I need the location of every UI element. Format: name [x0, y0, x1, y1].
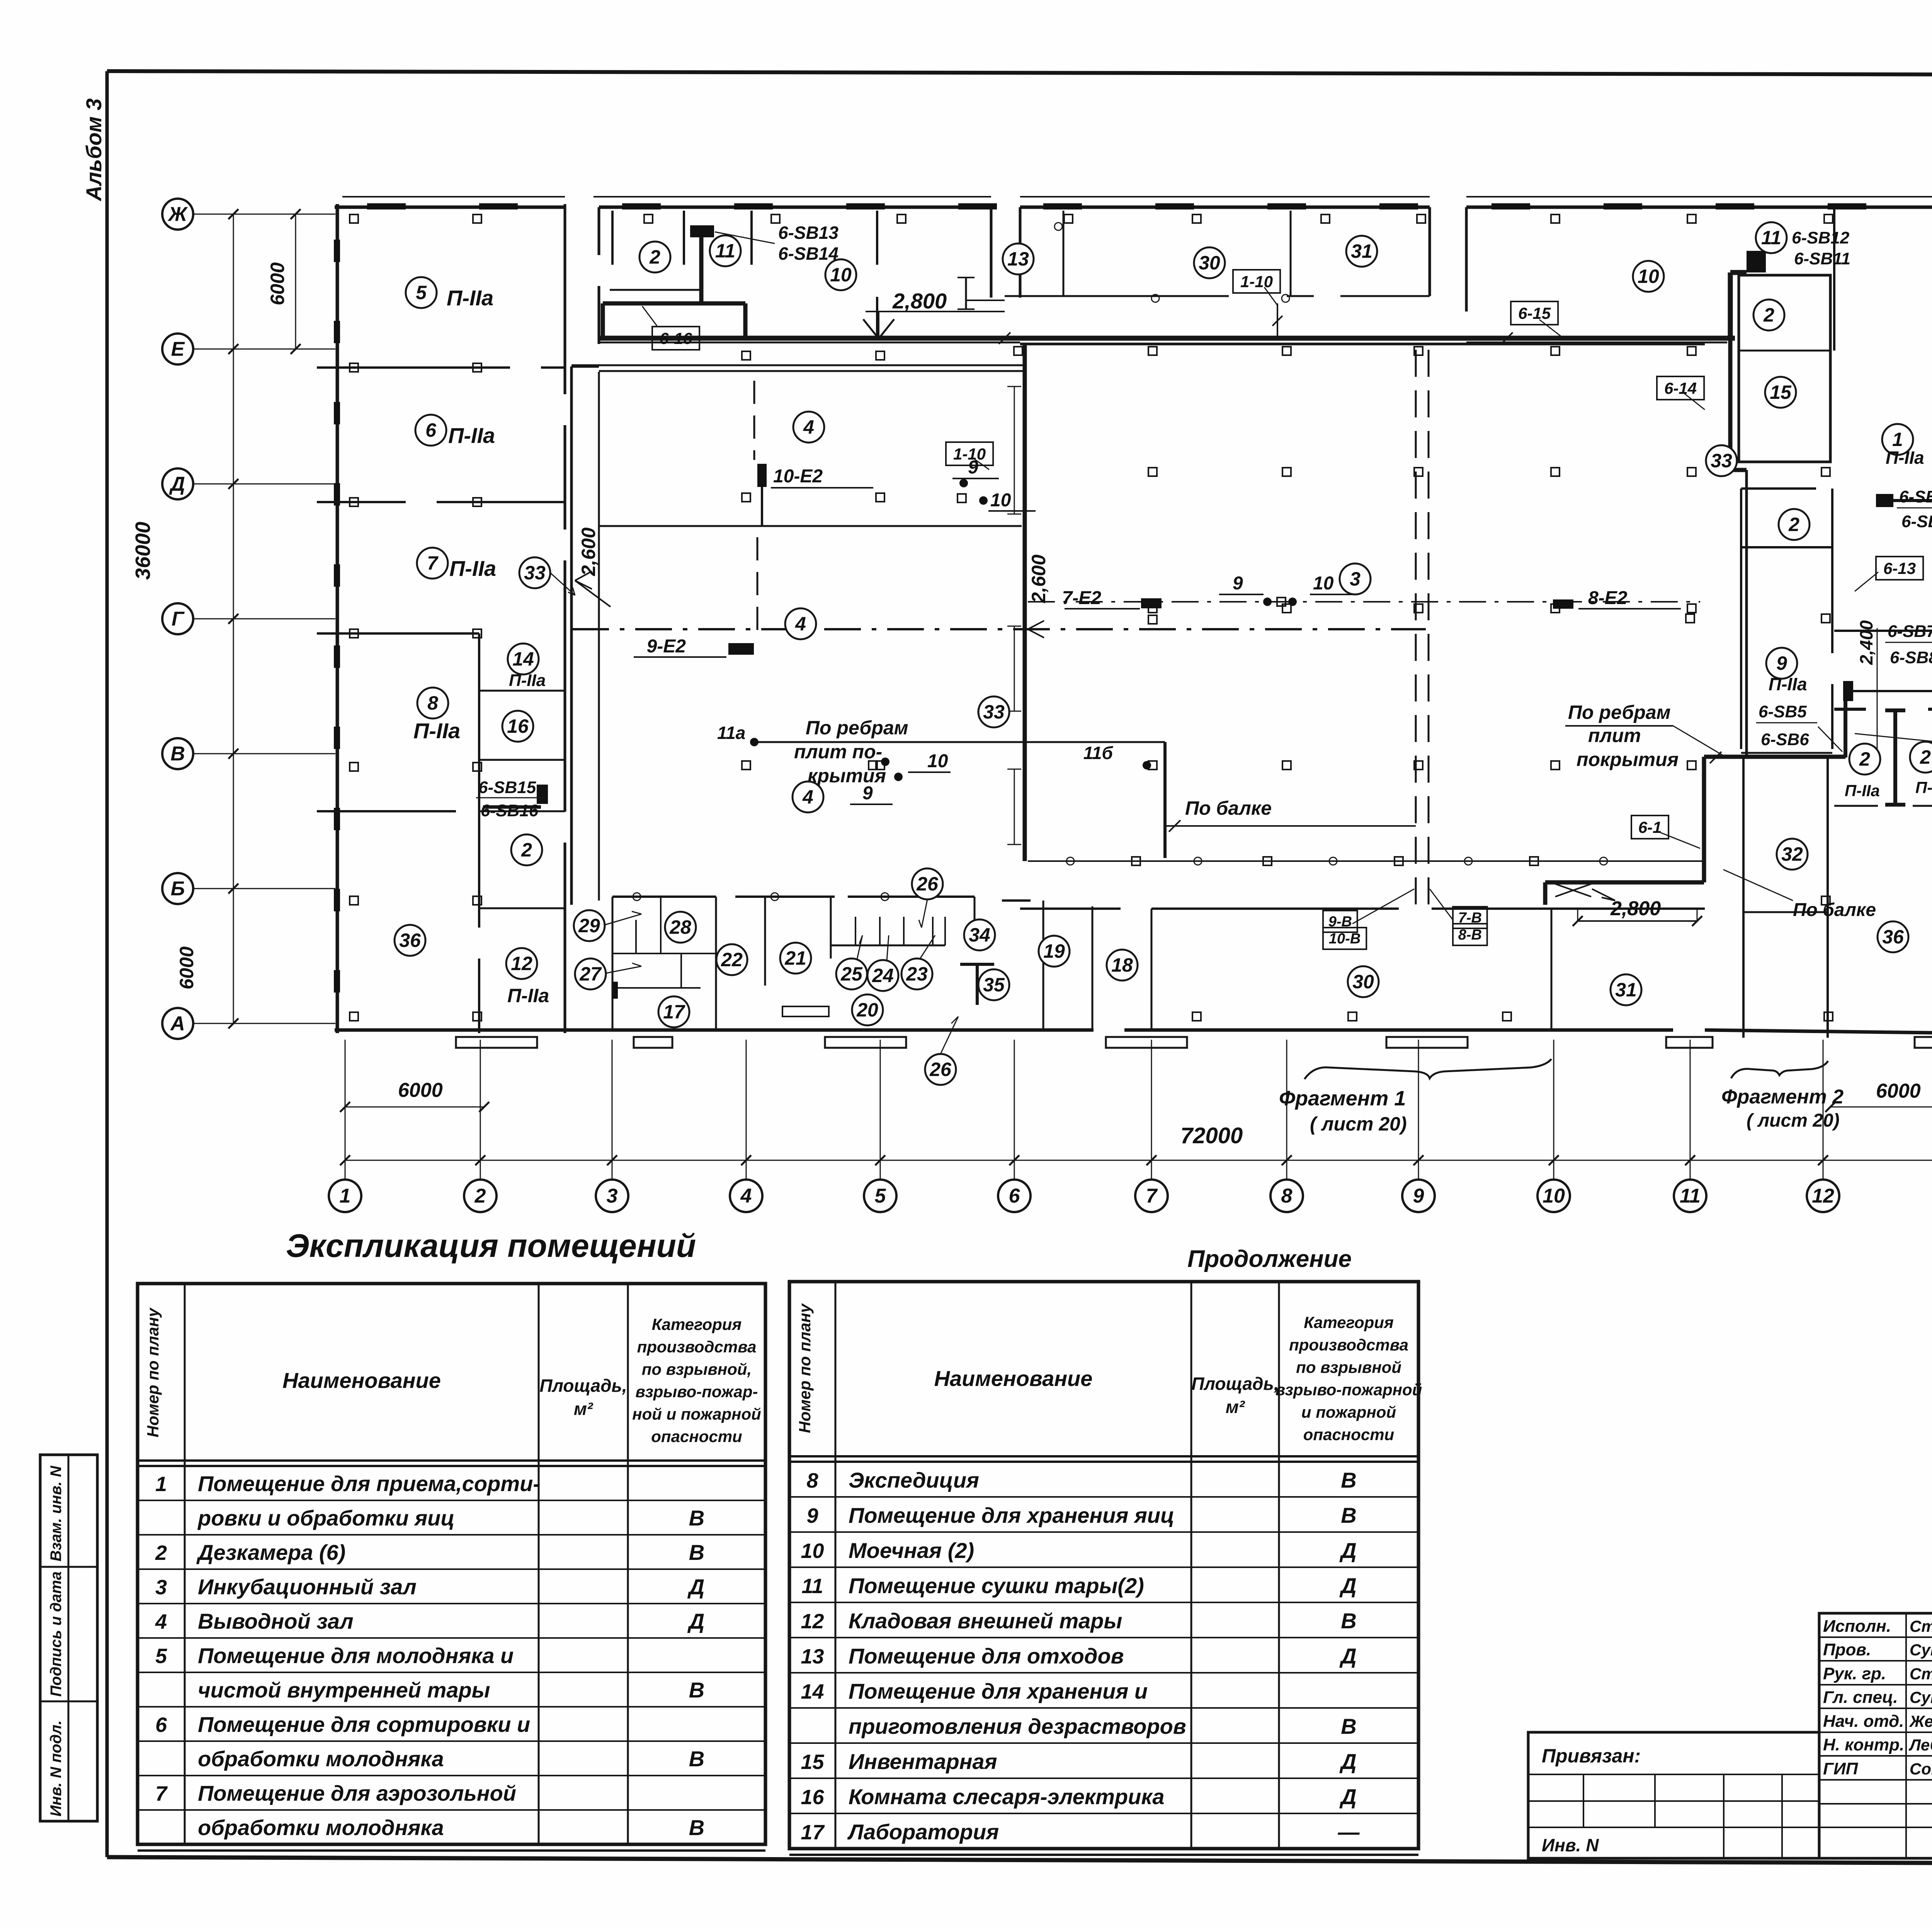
svg-text:26: 26	[916, 873, 939, 895]
svg-text:Фрагмент 2: Фрагмент 2	[1721, 1086, 1844, 1108]
svg-text:Инвентарная: Инвентарная	[849, 1749, 997, 1774]
svg-text:4: 4	[155, 1610, 167, 1633]
central hall bottom line	[1028, 826, 1705, 861]
tambour H-columns	[1885, 710, 1905, 805]
svg-text:Супрунова: Супрунова	[1910, 1641, 1932, 1659]
svg-text:6-SB12: 6-SB12	[1792, 228, 1850, 247]
svg-text:опасности: опасности	[1303, 1425, 1394, 1444]
svg-text:Старицына: Старицына	[1910, 1617, 1932, 1635]
svg-text:Наименование: Наименование	[934, 1366, 1093, 1391]
top strip block rooms 13-30-31 walls	[1005, 207, 1430, 337]
svg-text:7: 7	[155, 1782, 168, 1805]
svg-text:м²: м²	[1226, 1397, 1245, 1417]
svg-text:23: 23	[906, 963, 928, 985]
svg-text:8: 8	[427, 692, 438, 714]
cable down right wing	[1545, 757, 1704, 905]
svg-text:6-SB14: 6-SB14	[778, 243, 838, 264]
svg-text:33: 33	[524, 562, 546, 584]
svg-text:Соколовский: Соколовский	[1910, 1760, 1932, 1778]
svg-text:Д: Д	[687, 1609, 704, 1633]
label po balke right	[1723, 870, 1876, 920]
cable trunk corridor	[600, 332, 1735, 832]
svg-text:Е: Е	[171, 338, 185, 361]
bottom strip partitions	[612, 897, 1551, 1032]
svg-text:6000: 6000	[267, 262, 288, 305]
labels 7-B 8-B	[1430, 889, 1487, 945]
svg-text:взрыво-пожарной: взрыво-пожарной	[1276, 1381, 1422, 1399]
svg-text:Экспедиция: Экспедиция	[849, 1468, 979, 1492]
svg-text:Помещение для хранения и: Помещение для хранения и	[849, 1679, 1148, 1703]
right wing walls	[1741, 489, 1932, 1038]
svg-text:7: 7	[427, 552, 439, 574]
svg-text:В: В	[689, 1815, 704, 1840]
svg-text:П-IIа: П-IIа	[413, 718, 460, 743]
label 6-SB5/6	[1756, 702, 1842, 752]
label 6-SB13/14	[715, 223, 838, 264]
svg-text:26: 26	[929, 1059, 952, 1080]
label 6-SB12/11	[1792, 228, 1850, 268]
cable riser room 11 right	[1730, 251, 1766, 756]
svg-text:Пров.: Пров.	[1823, 1640, 1871, 1659]
label 2,800 top with arrow	[863, 278, 1005, 339]
label 6-15	[1511, 301, 1565, 339]
svg-text:6-13: 6-13	[1883, 559, 1916, 577]
continuation label mid	[1187, 1246, 1352, 1272]
hall 4 top wall	[571, 365, 1023, 371]
svg-text:9: 9	[1776, 652, 1787, 674]
svg-text:Помещение для приема,сорти-: Помещение для приема,сорти-	[198, 1471, 540, 1496]
svg-text:Моечная (2): Моечная (2)	[849, 1538, 974, 1563]
svg-text:Жевнеров: Жевнеров	[1909, 1712, 1932, 1730]
svg-text:6: 6	[425, 419, 437, 441]
svg-text:10: 10	[830, 264, 852, 286]
svg-text:Помещение для молодняка и: Помещение для молодняка и	[198, 1643, 514, 1668]
svg-text:Инкубационный зал: Инкубационный зал	[198, 1575, 417, 1599]
left margin attribute boxes	[40, 1455, 97, 1821]
svg-text:В: В	[170, 743, 185, 765]
svg-text:6000: 6000	[398, 1079, 443, 1102]
bottom dimension lines	[340, 1079, 1932, 1165]
svg-text:19: 19	[1043, 940, 1065, 962]
svg-text:6000: 6000	[1876, 1080, 1921, 1102]
svg-text:Подпись и дата: Подпись и дата	[48, 1571, 65, 1697]
svg-text:Инв. N: Инв. N	[1542, 1835, 1599, 1855]
svg-text:В: В	[689, 1747, 704, 1771]
label 6-1	[1631, 816, 1700, 848]
album label (rotated)	[82, 98, 106, 202]
svg-text:П-IIа: П-IIа	[449, 556, 496, 581]
svg-text:крытия: крытия	[808, 765, 886, 787]
svg-text:6-SB13: 6-SB13	[778, 223, 838, 243]
svg-text:4: 4	[802, 786, 813, 808]
svg-text:Выводной зал: Выводной зал	[198, 1609, 354, 1633]
svg-text:21: 21	[784, 947, 806, 969]
svg-text:6-SB8: 6-SB8	[1890, 648, 1932, 667]
left block partitions	[317, 368, 565, 1033]
left block window ticks	[334, 240, 340, 993]
svg-text:33: 33	[1711, 450, 1732, 472]
svg-text:Взам. инв. N: Взам. инв. N	[48, 1466, 65, 1561]
svg-text:А: А	[170, 1013, 185, 1035]
dash-dot centerline 7E2-8E2	[1028, 601, 1700, 603]
hall 4 right wall	[1023, 344, 1027, 861]
svg-text:Б: Б	[171, 878, 185, 900]
label 7-E2	[1062, 588, 1162, 624]
left block outer walls	[335, 197, 1932, 1033]
svg-text:11: 11	[801, 1575, 823, 1598]
svg-text:31: 31	[1351, 240, 1372, 262]
svg-text:Номер по плану: Номер по плану	[144, 1307, 162, 1437]
point labels 9/10 room4 lower	[850, 751, 951, 804]
svg-text:33: 33	[983, 701, 1005, 723]
svg-text:Экспликация помещений: Экспликация помещений	[286, 1228, 696, 1264]
explication title	[286, 1228, 696, 1264]
svg-text:Старицына: Старицына	[1910, 1665, 1932, 1683]
svg-text:плит по-: плит по-	[794, 741, 882, 763]
rotated dim 2,400	[1856, 620, 1876, 665]
grid axis number circles	[329, 1040, 1932, 1212]
svg-text:Супрунова: Супрунова	[1910, 1688, 1932, 1706]
svg-text:2: 2	[1859, 748, 1870, 770]
label 6-12	[1855, 734, 1932, 760]
svg-text:Кладовая внешней тары: Кладовая внешней тары	[849, 1609, 1122, 1633]
svg-text:4: 4	[795, 613, 806, 635]
svg-text:72000: 72000	[1180, 1123, 1243, 1148]
svg-text:9-E2: 9-E2	[647, 636, 686, 657]
svg-text:Д: Д	[687, 1575, 704, 1599]
svg-text:ной и пожарной: ной и пожарной	[632, 1405, 761, 1423]
svg-text:6: 6	[1009, 1185, 1020, 1207]
svg-text:чистой внутренней тары: чистой внутренней тары	[198, 1678, 490, 1702]
rotated dim 2,600 left	[575, 528, 611, 607]
svg-text:Альбом 3: Альбом 3	[82, 98, 106, 202]
svg-text:30: 30	[1199, 252, 1220, 274]
column squares	[350, 215, 1932, 1021]
label 9-E2	[634, 636, 754, 657]
svg-text:По ребрам: По ребрам	[1568, 701, 1671, 723]
svg-text:2: 2	[474, 1185, 486, 1207]
svg-text:9: 9	[1233, 573, 1243, 594]
svg-text:Д: Д	[1339, 1573, 1356, 1598]
svg-text:14: 14	[801, 1680, 824, 1703]
svg-text:2: 2	[155, 1541, 167, 1565]
svg-text:Помещение для хранения яиц: Помещение для хранения яиц	[849, 1503, 1174, 1527]
label po balke left	[1185, 797, 1272, 819]
svg-text:12: 12	[511, 953, 532, 974]
svg-text:31: 31	[1615, 979, 1637, 1001]
svg-text:Помещение для сортировки и: Помещение для сортировки и	[198, 1712, 530, 1737]
dashed vertical 9E2	[754, 381, 762, 638]
bottom outer wall	[567, 1030, 1932, 1033]
svg-text:П-IIа: П-IIа	[1845, 781, 1880, 800]
grid axis letter circles	[162, 199, 335, 1039]
svg-text:12: 12	[1812, 1185, 1834, 1207]
svg-text:36: 36	[399, 930, 421, 951]
fragment 2 brace and label	[1721, 1061, 1844, 1131]
svg-text:7: 7	[1146, 1185, 1158, 1207]
svg-text:Комната слесаря-электрика: Комната слесаря-электрика	[849, 1784, 1165, 1809]
entrance canopy with brace	[1546, 883, 1696, 901]
svg-text:1-10: 1-10	[1240, 272, 1273, 291]
small circle markers on hall lines	[633, 857, 1607, 901]
svg-text:Помещение для отходов: Помещение для отходов	[849, 1644, 1124, 1668]
label 6-13	[1855, 557, 1923, 591]
svg-text:11б: 11б	[1083, 743, 1114, 763]
svg-text:4: 4	[740, 1185, 752, 1207]
bottom table 2	[789, 1282, 1422, 1855]
svg-text:28: 28	[669, 916, 691, 938]
svg-text:Г: Г	[172, 608, 185, 630]
svg-text:покрытия: покрытия	[1577, 749, 1679, 770]
svg-text:( лист 20): ( лист 20)	[1747, 1110, 1840, 1131]
line 11a po rebram	[750, 738, 1165, 858]
top strip block rooms 10-2-15 walls	[1466, 207, 1932, 631]
svg-text:7-E2: 7-E2	[1062, 588, 1102, 608]
svg-text:6-SB6: 6-SB6	[1761, 730, 1809, 749]
svg-text:35: 35	[983, 974, 1005, 996]
svg-text:32: 32	[1781, 843, 1803, 865]
svg-text:П-IIа: П-IIа	[509, 671, 546, 690]
svg-text:8: 8	[1281, 1185, 1293, 1207]
svg-text:Лебская: Лебская	[1908, 1736, 1932, 1754]
svg-text:20: 20	[856, 999, 878, 1021]
svg-text:2,800: 2,800	[1610, 897, 1661, 920]
svg-text:15: 15	[1770, 381, 1792, 403]
svg-text:4: 4	[803, 416, 814, 438]
svg-text:17: 17	[663, 1001, 685, 1023]
label 8-E2	[1553, 588, 1681, 609]
svg-text:13: 13	[801, 1645, 824, 1668]
svg-text:В: В	[1341, 1503, 1356, 1527]
svg-text:производства: производства	[637, 1338, 757, 1356]
svg-text:Гл. спец.: Гл. спец.	[1823, 1688, 1898, 1707]
labels 9-B 10-B	[1323, 889, 1414, 949]
svg-text:П-IIа: П-IIа	[448, 423, 495, 448]
central hall top wall	[1020, 343, 1705, 346]
svg-text:9: 9	[806, 1504, 818, 1527]
svg-text:36000: 36000	[131, 522, 155, 580]
svg-text:3: 3	[607, 1185, 618, 1207]
svg-text:5: 5	[155, 1645, 167, 1668]
svg-text:В: В	[1341, 1714, 1356, 1738]
svg-text:Д: Д	[169, 473, 185, 495]
svg-text:18: 18	[1111, 954, 1133, 976]
svg-text:Д: Д	[1339, 1784, 1356, 1809]
svg-text:П-IIа: П-IIа	[1769, 674, 1807, 694]
cable room 12 stub	[483, 785, 548, 807]
svg-text:Наименование: Наименование	[282, 1368, 441, 1393]
svg-text:по взрывной: по взрывной	[1296, 1358, 1401, 1376]
svg-text:27: 27	[579, 963, 602, 985]
cable riser room 11 left	[603, 225, 745, 337]
svg-text:По ребрам: По ребрам	[806, 717, 908, 739]
fire category labels	[413, 286, 1932, 1006]
svg-text:2: 2	[1763, 304, 1774, 326]
svg-text:Категория: Категория	[652, 1315, 742, 1333]
svg-text:10: 10	[1543, 1185, 1565, 1207]
svg-text:6-14: 6-14	[1664, 379, 1697, 397]
svg-text:Ж: Ж	[167, 203, 188, 226]
svg-text:5: 5	[875, 1185, 886, 1207]
room number circles	[395, 222, 1932, 1085]
point labels 9/10 room4 upper	[952, 457, 1036, 511]
svg-text:8: 8	[806, 1469, 818, 1492]
label 1-10 top	[1233, 270, 1280, 305]
cable tambour right	[1704, 494, 1932, 758]
point labels 9/10 room3	[1219, 573, 1354, 606]
svg-text:Д: Д	[1339, 1538, 1356, 1563]
svg-text:Номер по плану: Номер по плану	[796, 1303, 814, 1433]
bottom table 1	[138, 1284, 765, 1851]
svg-text:2,800: 2,800	[892, 289, 947, 313]
svg-text:17: 17	[801, 1821, 825, 1844]
svg-text:2,400: 2,400	[1856, 620, 1876, 665]
hall 4 left corridor walls	[571, 366, 599, 905]
svg-text:1: 1	[155, 1473, 167, 1496]
svg-text:Нач. отд.: Нач. отд.	[1823, 1712, 1904, 1731]
label 10-E2	[757, 464, 873, 488]
grid 6 axis segments in hall	[1007, 386, 1021, 844]
svg-text:Помещение для аэрозольной: Помещение для аэрозольной	[198, 1781, 516, 1805]
svg-text:10: 10	[801, 1539, 824, 1563]
svg-text:22: 22	[721, 949, 743, 970]
svg-text:14: 14	[512, 648, 534, 670]
bottom strip top walls	[612, 897, 1705, 909]
svg-text:10: 10	[927, 751, 948, 771]
svg-text:11а: 11а	[717, 723, 745, 743]
svg-text:По балке: По балке	[1793, 900, 1876, 920]
svg-text:6-SB15: 6-SB15	[478, 778, 536, 797]
svg-text:6-15: 6-15	[1518, 304, 1551, 322]
top strip block rooms 2-11-10 walls	[599, 207, 1020, 344]
svg-text:6-SB10: 6-SB10	[1901, 512, 1932, 531]
vertical dimension lines left	[131, 209, 301, 1028]
label 6-14	[1657, 376, 1705, 410]
expansion joint dashed verticals	[1416, 350, 1429, 905]
svg-text:36: 36	[1882, 926, 1904, 948]
svg-text:Фрагмент 1: Фрагмент 1	[1279, 1087, 1406, 1110]
svg-text:П-IIа: П-IIа	[447, 286, 493, 310]
svg-text:10-В: 10-В	[1329, 931, 1361, 947]
svg-text:6: 6	[155, 1713, 167, 1737]
svg-text:6-16: 6-16	[660, 329, 692, 347]
room leader arrows	[550, 573, 958, 1054]
svg-text:3: 3	[1350, 568, 1361, 590]
svg-text:В: В	[1341, 1609, 1356, 1633]
svg-text:1: 1	[340, 1185, 351, 1207]
svg-text:и пожарной: и пожарной	[1301, 1403, 1396, 1421]
svg-text:Помещение сушки тары(2): Помещение сушки тары(2)	[849, 1573, 1144, 1598]
svg-text:В: В	[689, 1678, 704, 1702]
title block signature table	[1819, 1613, 1932, 1858]
svg-text:25: 25	[840, 963, 863, 985]
svg-text:—: —	[1338, 1820, 1360, 1844]
svg-text:6-SB7: 6-SB7	[1888, 622, 1932, 641]
svg-text:11: 11	[1680, 1185, 1701, 1207]
label 6-SB7/8	[1885, 622, 1932, 679]
label 6-16	[642, 306, 699, 350]
label 6-SB15/16	[476, 778, 544, 820]
svg-text:2: 2	[521, 839, 532, 861]
svg-text:9: 9	[1413, 1185, 1424, 1207]
svg-text:2,600: 2,600	[578, 528, 599, 576]
svg-text:Рук. гр.: Рук. гр.	[1823, 1664, 1886, 1683]
svg-text:24: 24	[872, 965, 894, 986]
svg-text:Д: Д	[1339, 1749, 1356, 1774]
svg-text:10-E2: 10-E2	[773, 466, 823, 487]
svg-text:Площадь,: Площадь,	[1191, 1374, 1279, 1394]
svg-text:13: 13	[1007, 248, 1029, 270]
svg-text:Привязан:: Привязан:	[1542, 1745, 1641, 1767]
svg-text:В: В	[689, 1506, 704, 1530]
svg-text:Площадь,: Площадь,	[539, 1376, 627, 1396]
svg-text:6-SB16: 6-SB16	[481, 801, 539, 820]
svg-text:6000: 6000	[176, 947, 197, 989]
svg-text:29: 29	[578, 915, 600, 936]
svg-text:опасности: опасности	[651, 1427, 742, 1445]
svg-text:Д: Д	[1339, 1644, 1356, 1668]
title block left part	[1528, 1732, 1819, 1858]
label 1-10 mid	[946, 442, 993, 470]
svg-text:Категория: Категория	[1304, 1313, 1393, 1331]
fragment 1 brace and label	[1279, 1059, 1551, 1135]
rotated dim 2,600 right	[1028, 555, 1049, 638]
svg-text:Н. контр.: Н. контр.	[1823, 1735, 1904, 1754]
hall 4 internal wall	[599, 525, 1022, 527]
svg-text:6-SB11: 6-SB11	[1794, 249, 1850, 268]
svg-text:производства: производства	[1289, 1336, 1408, 1354]
svg-text:обработки молодняка: обработки молодняка	[198, 1815, 444, 1840]
svg-text:16: 16	[801, 1786, 824, 1809]
label po rebram plit pokrytiya left	[717, 717, 908, 787]
label 6-SB9/10	[1897, 487, 1932, 531]
svg-text:15: 15	[801, 1750, 824, 1774]
svg-text:8-В: 8-В	[1458, 927, 1482, 943]
label po rebram plit pokrytiya right	[1565, 701, 1723, 770]
svg-text:2: 2	[649, 246, 660, 268]
label 2,800 bottom	[1573, 889, 1702, 926]
svg-text:1: 1	[1892, 429, 1903, 450]
svg-text:3: 3	[155, 1576, 167, 1599]
svg-text:ровки и обработки яиц: ровки и обработки яиц	[197, 1506, 455, 1530]
svg-text:По балке: По балке	[1185, 797, 1272, 819]
svg-text:П-IIа: П-IIа	[1886, 448, 1924, 468]
svg-text:м²: м²	[574, 1399, 594, 1419]
svg-text:Лаборатория: Лаборатория	[847, 1820, 999, 1844]
svg-text:2: 2	[1920, 746, 1931, 768]
svg-text:ГИП: ГИП	[1823, 1759, 1859, 1778]
svg-text:11: 11	[715, 240, 735, 262]
svg-text:10: 10	[990, 490, 1011, 511]
svg-text:обработки молодняка: обработки молодняка	[198, 1747, 444, 1771]
svg-text:Инв. N подл.: Инв. N подл.	[48, 1720, 65, 1817]
svg-text:плит: плит	[1588, 725, 1641, 746]
dash-dot lower long centerline	[572, 628, 1426, 630]
svg-text:Продолжение: Продолжение	[1187, 1246, 1352, 1272]
svg-text:16: 16	[507, 715, 529, 737]
svg-text:8-E2: 8-E2	[1588, 588, 1628, 608]
svg-text:Исполн.: Исполн.	[1823, 1617, 1891, 1636]
svg-text:взрыво-пожар-: взрыво-пожар-	[636, 1382, 758, 1401]
svg-text:10: 10	[1638, 266, 1659, 287]
svg-text:30: 30	[1352, 971, 1374, 993]
svg-text:34: 34	[969, 924, 990, 946]
svg-text:12: 12	[801, 1610, 824, 1633]
svg-text:приготовления дезрастворов: приготовления дезрастворов	[849, 1714, 1186, 1738]
entrance porches	[456, 1037, 1932, 1048]
svg-text:6-SB5: 6-SB5	[1759, 702, 1807, 721]
svg-text:2,600: 2,600	[1028, 555, 1049, 603]
